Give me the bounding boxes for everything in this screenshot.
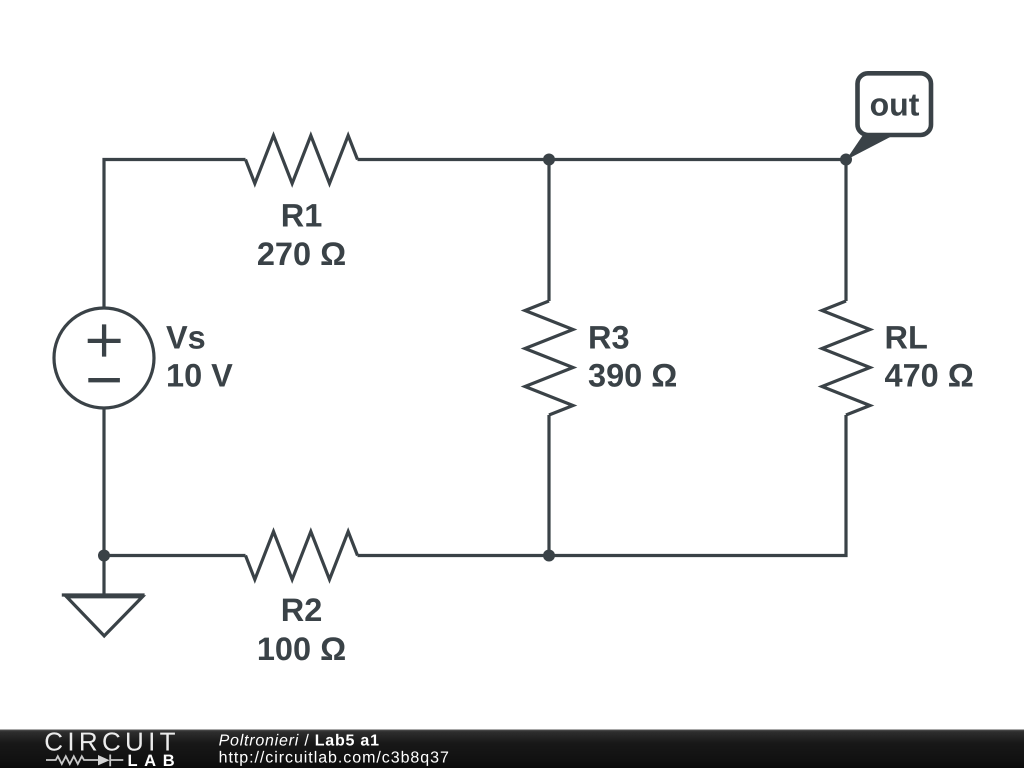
svg-text:LAB: LAB <box>128 752 182 768</box>
ground triangle <box>67 597 143 636</box>
svg-text:Vs: Vs <box>166 319 206 355</box>
out flag box <box>858 73 932 135</box>
svg-text:270 Ω: 270 Ω <box>257 236 346 272</box>
wire R3 top lead <box>547 160 550 302</box>
svg-text:R2: R2 <box>281 592 323 628</box>
svg-text:390 Ω: 390 Ω <box>588 357 677 393</box>
voltage source Vs circle <box>54 308 154 408</box>
resistor R3 <box>525 301 573 415</box>
Vs minus sign <box>88 378 120 382</box>
svg-text:10 V: 10 V <box>166 357 233 393</box>
svg-text:Poltronieri / Lab5 a1: Poltronieri / Lab5 a1 <box>219 732 380 749</box>
logo mini diode triangle <box>98 755 110 765</box>
node dot bottom middle (R3/bottom rail) <box>543 550 555 562</box>
logo mini resistor-diode schematic <box>46 755 123 767</box>
wire bottom rail left of R2 <box>104 554 246 557</box>
svg-text:R1: R1 <box>281 198 323 234</box>
resistor RL <box>822 301 870 415</box>
node dot out (RL/top rail) <box>840 154 852 166</box>
Vs plus sign <box>88 324 121 356</box>
wire left vertical below Vs to ground <box>102 408 105 595</box>
resistor R1 <box>246 136 358 184</box>
node dot bottom left (ground junction) <box>98 550 110 562</box>
wire top rail from Vs corner to R1 <box>104 160 246 309</box>
ground bar <box>62 593 145 596</box>
out flag pointer tail <box>846 134 893 160</box>
wire RL bottom lead and corner to bottom rail <box>358 415 847 556</box>
node dot top middle (R3/top rail) <box>543 154 555 166</box>
svg-text:100 Ω: 100 Ω <box>257 631 346 667</box>
svg-text:RL: RL <box>885 319 928 355</box>
wire RL top lead <box>844 160 847 302</box>
resistor R2 <box>246 532 358 580</box>
footer bar <box>0 730 1024 768</box>
svg-text:http://circuitlab.com/c3b8q37: http://circuitlab.com/c3b8q37 <box>219 749 450 766</box>
wire R3 bottom lead <box>547 415 550 556</box>
svg-text:470 Ω: 470 Ω <box>885 357 974 393</box>
svg-text:out: out <box>870 87 920 123</box>
svg-text:R3: R3 <box>588 319 630 355</box>
wire top rail right of R1 <box>358 158 847 161</box>
